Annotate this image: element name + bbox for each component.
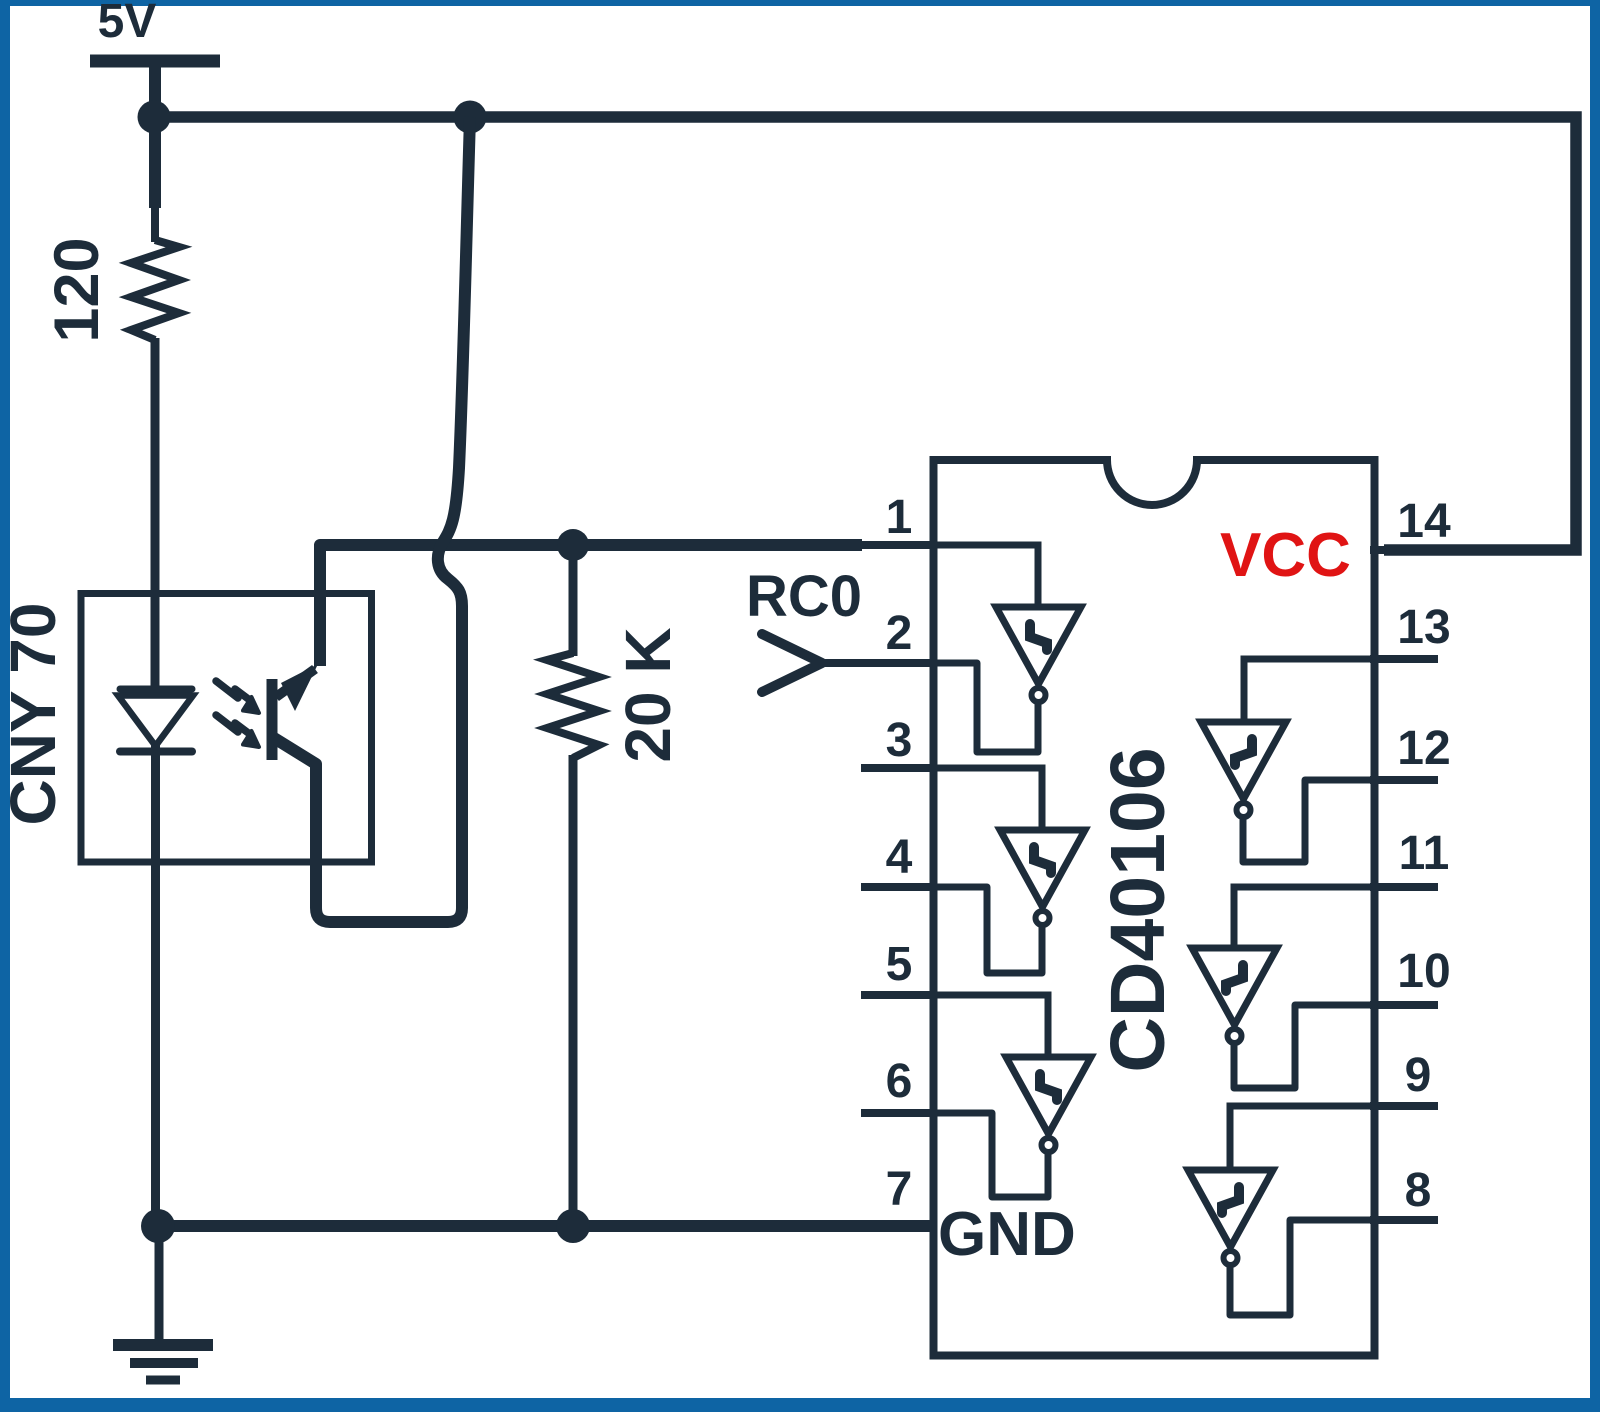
svg-text:7: 7	[886, 1163, 913, 1216]
pin 3 stub	[861, 764, 934, 772]
wire resistor lead bottom to LED	[151, 338, 160, 687]
svg-text:9: 9	[1405, 1049, 1432, 1102]
light arrow 2	[216, 715, 251, 735]
node junction dot A (154,117)	[138, 101, 171, 134]
resistor 120 zigzag	[131, 240, 179, 340]
node junction dot B (470,117)	[454, 101, 487, 134]
svg-text:11: 11	[1399, 827, 1450, 880]
inverter U1C output wire to pin6	[930, 1113, 1048, 1197]
inverter U1E schmitt mark	[1226, 965, 1243, 991]
inverter U1B triangle	[1000, 830, 1085, 907]
pin 13 stub	[1370, 655, 1438, 663]
svg-text:5V: 5V	[98, 0, 157, 48]
wire RC0 to pin2	[820, 659, 934, 667]
pin 4 stub	[861, 883, 934, 891]
inverter U1E triangle	[1192, 948, 1277, 1025]
node junction dot C (573,545)	[557, 529, 589, 561]
inverter U1C input wire	[930, 995, 1048, 1057]
inverter U1A output wire to pin2	[930, 663, 1038, 752]
inverter U1B bubble	[1036, 911, 1050, 925]
wire 20K lead bottom	[569, 755, 578, 1226]
svg-text:8: 8	[1405, 1164, 1432, 1217]
inverter U1E output wire to pin10	[1234, 1005, 1374, 1088]
ground symbol	[113, 1339, 213, 1351]
input arrow RC0	[762, 634, 822, 692]
diode LED cathode bar	[120, 748, 192, 756]
pin 10 stub	[1370, 1001, 1438, 1009]
svg-text:20 K: 20 K	[612, 627, 684, 762]
inverter U1F triangle	[1201, 722, 1286, 799]
IC U1 CD40106 body	[934, 460, 1375, 1356]
pin 8 stub	[1370, 1216, 1438, 1224]
svg-text:10: 10	[1397, 945, 1450, 998]
svg-text:4: 4	[886, 831, 913, 884]
inverter U1C bubble	[1042, 1138, 1056, 1152]
node junction dot D (156,1226)	[141, 1209, 175, 1243]
diode LED anode bar	[120, 686, 192, 693]
pin 11 stub	[1370, 883, 1438, 891]
inverter U1F bubble	[1237, 803, 1251, 817]
svg-text:1: 1	[886, 491, 913, 544]
inverter U1D schmitt mark	[1222, 1187, 1239, 1213]
pin 9 stub	[1370, 1102, 1438, 1110]
inverter U1B output wire to pin4	[930, 887, 1042, 973]
svg-text:14: 14	[1397, 495, 1451, 548]
wire resistor lead top	[149, 117, 161, 208]
svg-text:2: 2	[886, 607, 913, 660]
pin 6 stub	[861, 1109, 934, 1117]
svg-text:5: 5	[886, 938, 913, 991]
resistor 20K zigzag	[547, 653, 599, 758]
light arrow 1	[216, 681, 251, 701]
svg-text:GND: GND	[938, 1200, 1076, 1269]
pin 14 stub	[1370, 546, 1445, 554]
svg-text:13: 13	[1397, 601, 1450, 654]
inverter U1A schmitt mark	[1030, 624, 1047, 650]
pin 5 stub	[861, 991, 934, 999]
inverter U1E input wire from pin11	[1234, 887, 1374, 948]
wire collector riser and node wire to pin1	[320, 545, 862, 666]
inverter U1F input wire from pin13	[1244, 659, 1374, 722]
node junction dot E (573,1226)	[556, 1209, 590, 1243]
wire 20K lead top	[569, 545, 578, 656]
inverter U1F schmitt mark	[1235, 739, 1252, 765]
inverter U1D triangle	[1188, 1170, 1273, 1247]
wire LED cathode down to ground rail	[151, 742, 160, 1230]
inverter U1B input wire	[930, 768, 1042, 830]
pin 12 stub	[1370, 776, 1438, 784]
inverter U1B schmitt mark	[1034, 847, 1051, 873]
transistor Q1 collector arm with arrow	[276, 669, 315, 697]
inverter U1A input wire	[930, 545, 1038, 607]
svg-text:VCC: VCC	[1220, 521, 1351, 590]
inverter U1D bubble	[1224, 1251, 1238, 1265]
power symbol 5V bar	[90, 55, 220, 68]
inverter U1F output wire to pin12	[1243, 780, 1374, 862]
svg-text:RC0: RC0	[746, 564, 862, 629]
diode LED triangle	[118, 696, 193, 747]
inverter U1D input wire from pin9	[1230, 1106, 1374, 1170]
svg-text:CD40106: CD40106	[1095, 747, 1181, 1072]
inverter U1C schmitt mark	[1040, 1074, 1057, 1100]
pin 1 stub	[560, 541, 934, 549]
optocoupler box CNY70	[81, 594, 372, 863]
inverter U1A bubble	[1032, 688, 1046, 702]
svg-text:12: 12	[1397, 722, 1450, 775]
wire emitter loop to curvy wire up to 5V rail	[274, 117, 470, 922]
inverter U1C triangle	[1006, 1057, 1091, 1134]
inverter U1A triangle	[996, 607, 1081, 684]
inverter U1E bubble	[1228, 1029, 1242, 1043]
wire 5V stub	[149, 62, 161, 120]
wire ground rail	[157, 1220, 930, 1232]
transistor Q1 base bar	[267, 679, 278, 760]
inverter U1D output wire to pin8	[1230, 1220, 1374, 1315]
svg-text:CNY 70: CNY 70	[0, 603, 69, 826]
wire top rail from 5V to right corner down to pin14	[154, 117, 1576, 550]
wire ground stub	[155, 1226, 164, 1341]
svg-text:120: 120	[42, 237, 112, 342]
svg-text:3: 3	[886, 714, 913, 767]
svg-text:6: 6	[886, 1055, 913, 1108]
